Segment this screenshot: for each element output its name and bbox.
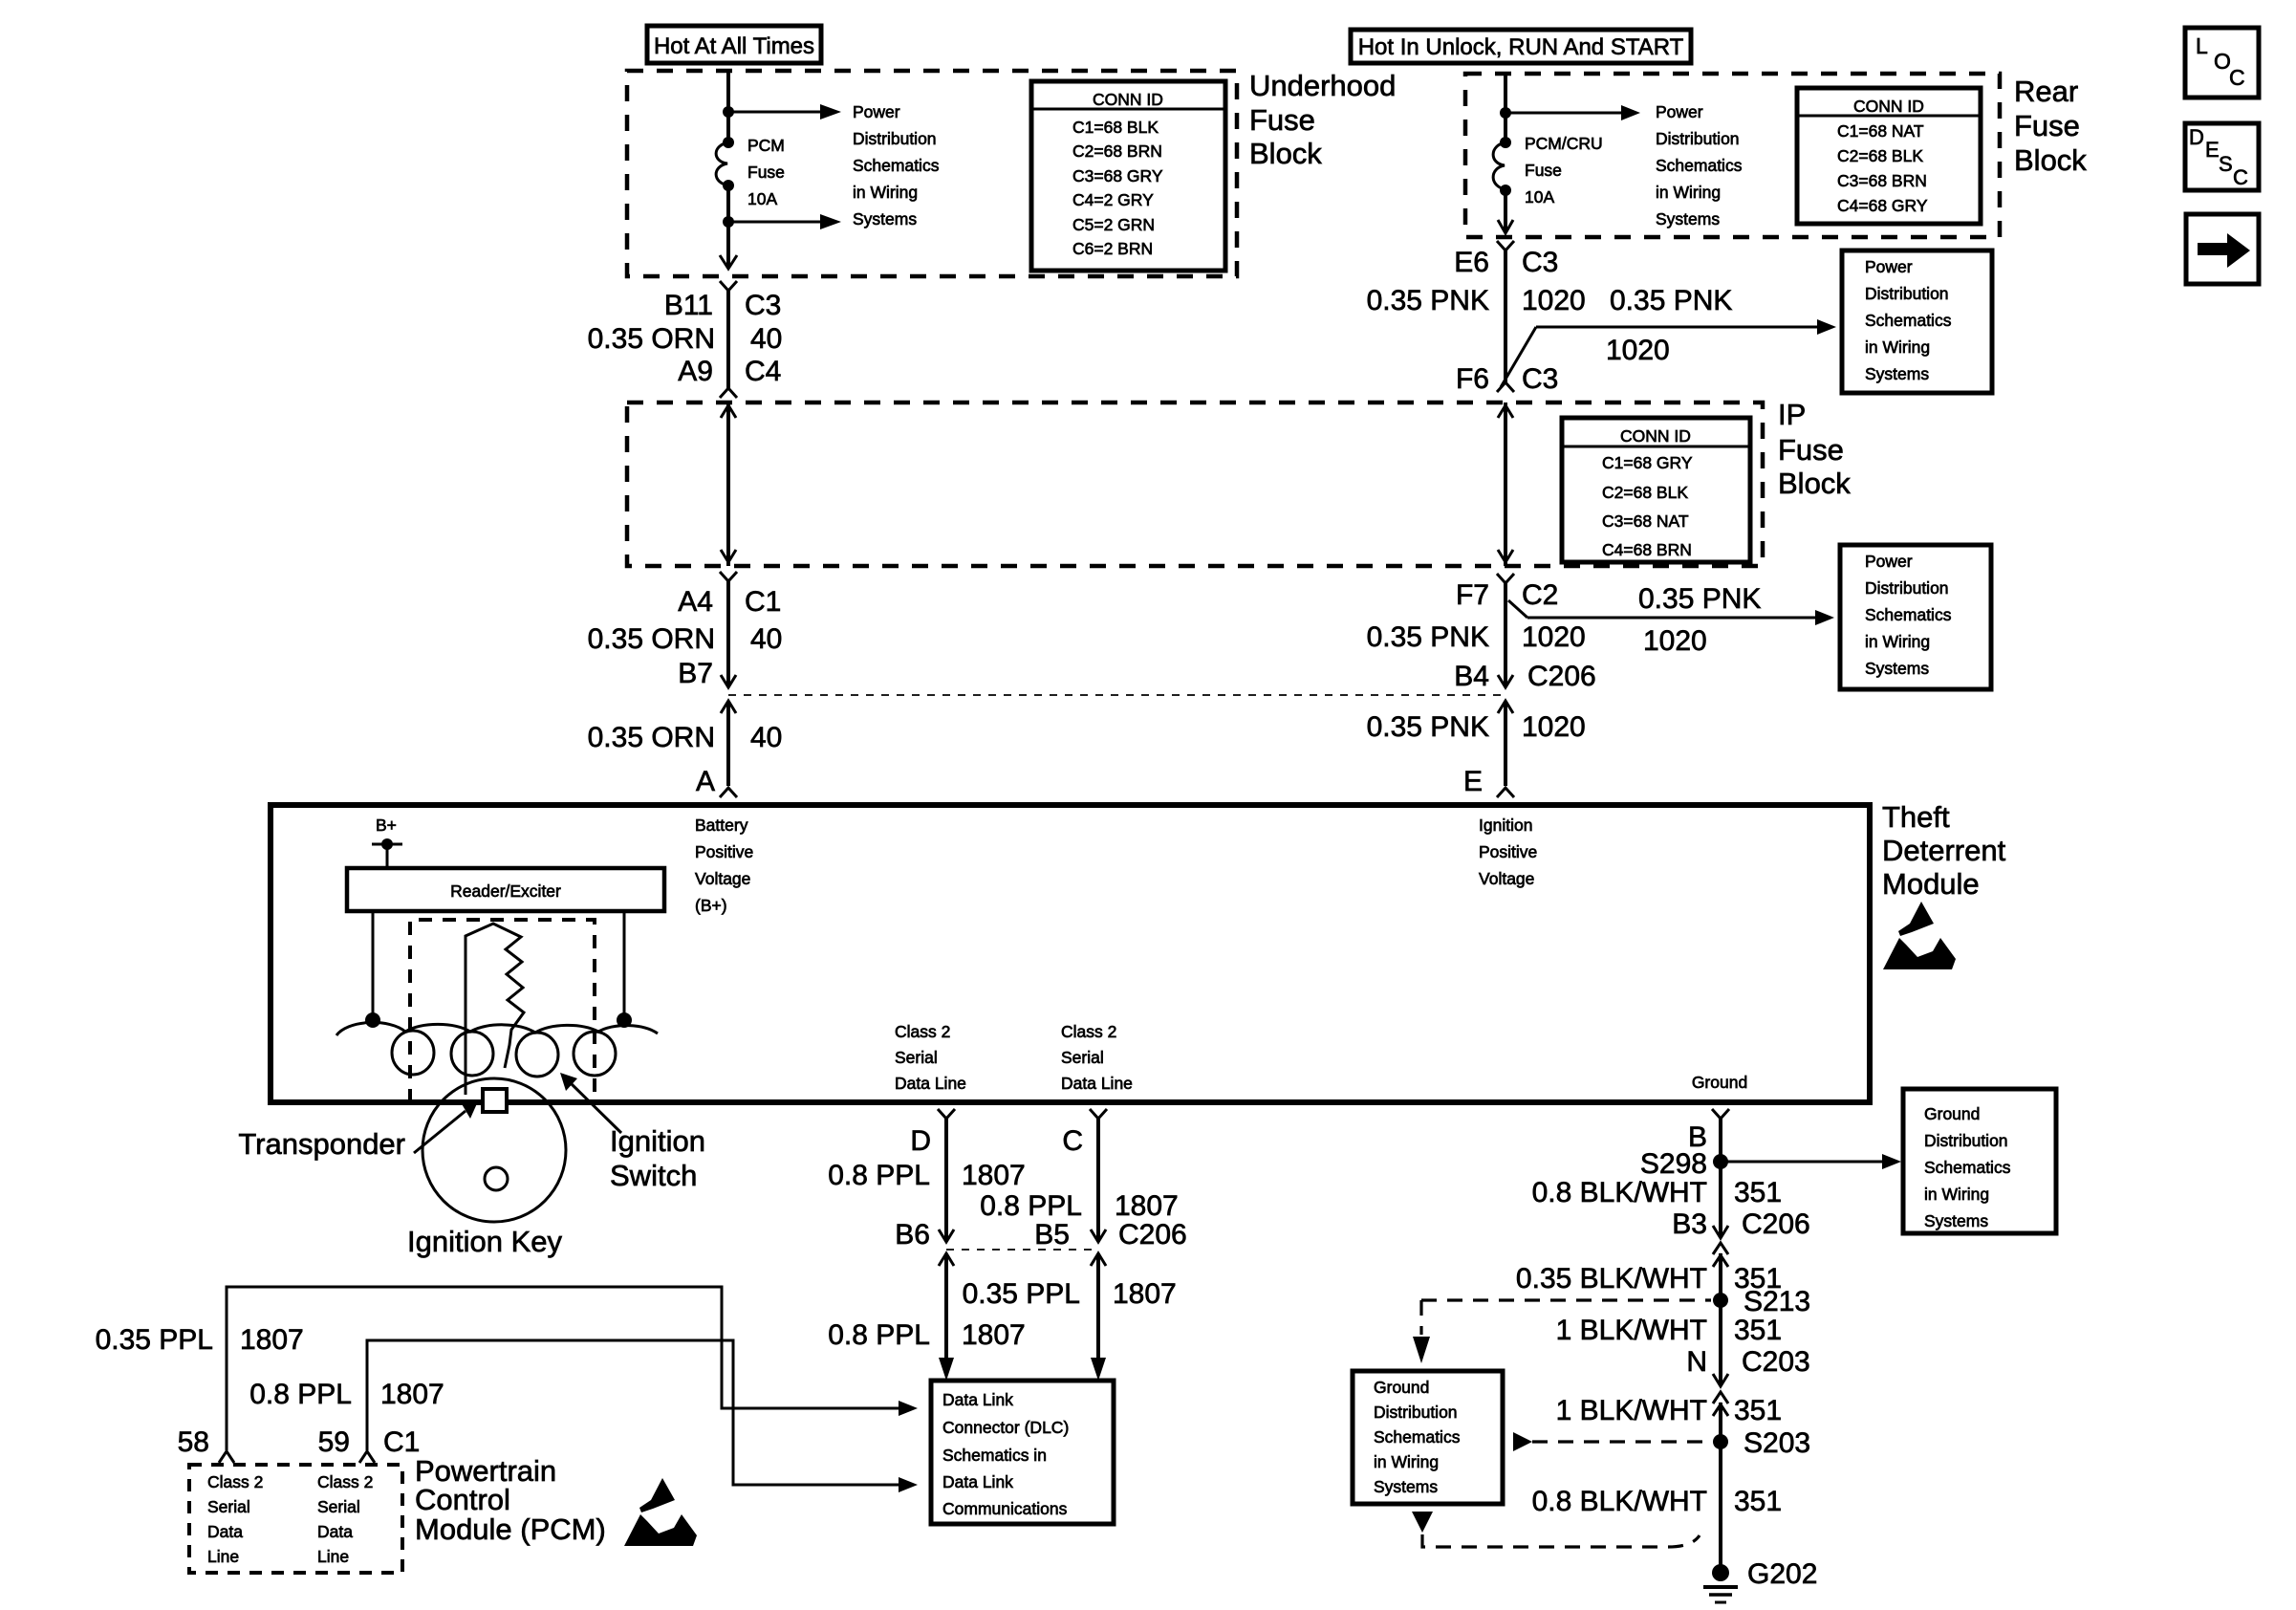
svg-text:C1: C1 (745, 586, 781, 618)
wire: 0.35 PNK 1020 (rear to IP) (1504, 249, 1507, 382)
svg-text:Reader/Exciter: Reader/Exciter (450, 881, 561, 901)
svg-text:CONN ID: CONN ID (1620, 426, 1691, 446)
svg-text:C3: C3 (1522, 363, 1558, 395)
svg-text:Distribution: Distribution (853, 129, 937, 148)
connector E6/C3: top fork (1497, 241, 1514, 250)
svg-text:C2=68 BRN: C2=68 BRN (1072, 141, 1162, 161)
svg-text:0.35 PPL: 0.35 PPL (96, 1324, 213, 1356)
wire: 0.35 PPL 1807 (C206 to DLC, left) (939, 1253, 954, 1266)
svg-text:S213: S213 (1744, 1286, 1810, 1317)
svg-text:0.8 BLK/WHT: 0.8 BLK/WHT (1532, 1177, 1707, 1208)
svg-text:C5=2 GRN: C5=2 GRN (1072, 215, 1155, 234)
wire: PCM pin 58 serial data to DLC (227, 1287, 900, 1450)
svg-text:Data: Data (207, 1522, 243, 1541)
svg-text:Schematics: Schematics (1374, 1427, 1461, 1447)
wire: reader/exciter left lead (372, 911, 375, 1015)
wire: ignition feed into rear block (1504, 74, 1507, 142)
svg-text:in Wiring: in Wiring (1924, 1185, 1989, 1204)
svg-text:C1=68 GRY: C1=68 GRY (1602, 453, 1693, 472)
wire: reader/exciter right lead (623, 911, 626, 1015)
connector fork at PCM pin 59 (359, 1451, 375, 1463)
svg-text:10A: 10A (1525, 187, 1554, 207)
svg-text:Class 2: Class 2 (895, 1022, 950, 1041)
svg-text:Distribution: Distribution (1374, 1403, 1458, 1422)
splice S203 (1713, 1434, 1728, 1449)
label: Theft Deterrent Module title (1882, 800, 2006, 901)
wire: branch from F7 to power distribution (lower) (1508, 600, 1527, 618)
svg-text:Block: Block (2014, 143, 2087, 177)
legend box: arrow (2186, 214, 2259, 284)
svg-text:C203: C203 (1742, 1346, 1810, 1378)
svg-text:C206: C206 (1118, 1219, 1187, 1251)
svg-text:N: N (1686, 1346, 1707, 1378)
svg-text:Serial: Serial (207, 1497, 250, 1516)
svg-text:Control: Control (415, 1483, 510, 1516)
ignition key head (422, 1078, 566, 1222)
reference box: Power Distribution Schematics (upper right) (1842, 250, 1992, 393)
svg-text:Block: Block (1249, 137, 1322, 170)
reference box: Power Distribution Schematics (lower right) (1840, 545, 1991, 689)
legend box: DESC (2185, 123, 2259, 190)
connector table: CONN ID IP (1562, 418, 1750, 562)
wire: 0.35 BLK/WHT 351 (C206 to S213) (1719, 1253, 1722, 1300)
svg-text:Voltage: Voltage (695, 869, 750, 888)
svg-text:A4: A4 (678, 586, 713, 618)
svg-text:0.35 PNK: 0.35 PNK (1367, 285, 1489, 316)
svg-text:Data Link: Data Link (942, 1472, 1013, 1491)
svg-text:Distribution: Distribution (1924, 1131, 2008, 1150)
IP Fuse Block dashed box (627, 402, 1763, 566)
reference box: Ground Distribution Schematics (left) (1353, 1371, 1503, 1504)
svg-text:0.8 PPL: 0.8 PPL (828, 1160, 930, 1191)
connector table: CONN ID rear (1797, 88, 1981, 224)
node: junction to power distribution arrow (1500, 107, 1511, 119)
wire: 0.8 BLK/WHT 351 (S203 to G202) (1719, 1442, 1722, 1568)
svg-text:0.8 PPL: 0.8 PPL (249, 1379, 352, 1410)
svg-text:CONN ID: CONN ID (1853, 97, 1924, 116)
svg-text:C3=68 GRY: C3=68 GRY (1072, 166, 1163, 185)
splice S213 (1713, 1293, 1728, 1308)
svg-text:351: 351 (1734, 1486, 1782, 1517)
wire: dashed branch below left box to G202 (1412, 1512, 1433, 1533)
connector F6/C3: bottom fork (1497, 382, 1514, 392)
connector D: fork below module (938, 1109, 955, 1119)
svg-text:0.35 BLK/WHT: 0.35 BLK/WHT (1516, 1263, 1707, 1295)
svg-text:0.8 PPL: 0.8 PPL (828, 1319, 930, 1351)
svg-text:Positive: Positive (695, 842, 753, 861)
svg-text:40: 40 (750, 623, 782, 655)
wire: arrow to Power Distribution Schematics (rear) (1505, 112, 1623, 115)
antenna scalloped winding line (336, 1022, 658, 1035)
svg-text:351: 351 (1734, 1315, 1782, 1346)
label: Ignition Switch with arrow (560, 1073, 705, 1192)
svg-text:40: 40 (750, 722, 782, 753)
svg-text:PCM/CRU: PCM/CRU (1525, 134, 1603, 153)
svg-text:1 BLK/WHT: 1 BLK/WHT (1556, 1315, 1707, 1346)
svg-text:B3: B3 (1672, 1208, 1707, 1240)
wire: pass-through inside IP fuse block (right) (1504, 402, 1507, 566)
ignition switch dashed outline (410, 920, 595, 1102)
label: Rear Fuse Block title (2014, 75, 2087, 177)
svg-text:Line: Line (317, 1547, 349, 1566)
svg-text:C2=68 BLK: C2=68 BLK (1602, 483, 1688, 502)
svg-text:E6: E6 (1454, 247, 1489, 278)
connector A4/C1: top fork (720, 572, 737, 581)
wire: 0.8 BLK/WHT 351 (module B to C206) (1719, 1117, 1722, 1238)
Underhood Fuse Block dashed box (627, 71, 1237, 276)
label: Class 2 Serial Data Line (PCM left) (207, 1472, 263, 1566)
svg-text:Data Link: Data Link (942, 1390, 1013, 1409)
svg-text:G202: G202 (1747, 1558, 1817, 1590)
wire: arrow from S298 to ground distribution (1721, 1161, 1884, 1164)
wire: dashed branch from S213 to ground distribution (left) (1421, 1298, 1711, 1301)
svg-text:Power: Power (853, 102, 900, 121)
svg-text:Underhood: Underhood (1249, 69, 1396, 102)
svg-text:in Wiring: in Wiring (1865, 337, 1930, 357)
node: junction to power distribution arrow (723, 106, 734, 118)
svg-text:E: E (1463, 766, 1483, 797)
svg-text:0.35 ORN: 0.35 ORN (588, 722, 715, 753)
Rear Fuse Block dashed box (1465, 74, 2000, 237)
wire: battery feed B+ into underhood block (726, 71, 730, 142)
svg-text:S203: S203 (1744, 1427, 1810, 1459)
svg-text:Schematics: Schematics (853, 156, 940, 175)
svg-text:Systems: Systems (853, 209, 917, 228)
svg-text:B6: B6 (895, 1219, 930, 1251)
svg-text:0.35 PPL: 0.35 PPL (963, 1278, 1080, 1310)
wire: fuse output to block exit (726, 185, 730, 268)
svg-text:E: E (2205, 138, 2220, 162)
svg-text:Schematics: Schematics (1865, 605, 1952, 624)
svg-text:Serial: Serial (895, 1048, 938, 1067)
connector C206 in-line dashed link (728, 694, 1505, 696)
svg-text:B7: B7 (678, 658, 713, 689)
svg-text:B4: B4 (1454, 661, 1489, 692)
svg-text:58: 58 (178, 1426, 209, 1458)
ESD sensitivity symbol (PCM) (624, 1478, 697, 1546)
transponder chip square (483, 1089, 507, 1112)
svg-text:Fuse: Fuse (1525, 161, 1562, 180)
svg-text:S: S (2219, 152, 2233, 176)
svg-text:1020: 1020 (1606, 335, 1670, 366)
svg-text:0.35 PNK: 0.35 PNK (1610, 285, 1732, 316)
svg-text:Data: Data (317, 1522, 353, 1541)
svg-text:0.8 PPL: 0.8 PPL (980, 1190, 1082, 1222)
svg-text:Serial: Serial (317, 1497, 360, 1516)
svg-text:0.35 ORN: 0.35 ORN (588, 323, 715, 355)
svg-text:C2=68 BLK: C2=68 BLK (1837, 146, 1923, 165)
svg-text:1020: 1020 (1643, 625, 1707, 657)
svg-text:Class 2: Class 2 (1061, 1022, 1116, 1041)
antenna coil loops (392, 1031, 616, 1077)
svg-text:1020: 1020 (1522, 621, 1586, 653)
svg-text:Line: Line (207, 1547, 239, 1566)
header box: Hot In Unlock, RUN And START (1351, 30, 1691, 63)
svg-text:1020: 1020 (1522, 711, 1586, 743)
svg-text:C1=68 BLK: C1=68 BLK (1072, 118, 1159, 137)
svg-text:Fuse: Fuse (2014, 109, 2080, 142)
svg-text:1 BLK/WHT: 1 BLK/WHT (1556, 1395, 1707, 1426)
svg-text:F7: F7 (1456, 579, 1489, 611)
svg-text:Schematics: Schematics (1924, 1158, 2011, 1177)
connector table: CONN ID underhood (1031, 81, 1225, 271)
label: Class 2 Serial Data Line (PCM right) (317, 1472, 373, 1566)
connector fork at PCM pin 58 (219, 1451, 234, 1463)
svg-text:40: 40 (750, 323, 782, 355)
node: left antenna tap (365, 1012, 380, 1028)
fuse: PCM Fuse 10A (716, 136, 785, 208)
svg-text:(B+): (B+) (695, 896, 727, 915)
label: IP Fuse Block title (1778, 398, 1851, 500)
svg-text:1807: 1807 (1113, 1278, 1177, 1310)
svg-text:C3: C3 (1522, 247, 1558, 278)
wire: arrow to Power Distribution Schematics (lower) (728, 221, 822, 224)
Reader/Exciter box (347, 868, 664, 911)
node: junction to power distribution arrow (lower) (723, 216, 734, 228)
label: Class 2 Serial Data Line (right) (1061, 1022, 1133, 1093)
reference box: Data Link Connector (DLC) (931, 1381, 1114, 1524)
wire: 0.35 PNK 1020 (C206 to module pin E) (1498, 701, 1513, 713)
svg-text:C4=68 GRY: C4=68 GRY (1837, 196, 1928, 215)
svg-text:C: C (1062, 1125, 1083, 1157)
legend box: LOC (2185, 28, 2259, 98)
svg-text:A9: A9 (678, 356, 713, 387)
reference box: Ground Distribution Schematics (right) (1903, 1089, 2056, 1233)
wire: 0.35 PNK 1020 (IP to C206) (1504, 581, 1507, 687)
svg-text:in Wiring: in Wiring (1865, 632, 1930, 651)
svg-text:PCM: PCM (747, 136, 785, 155)
svg-text:Serial: Serial (1061, 1048, 1104, 1067)
B+ terminal (372, 816, 402, 870)
svg-text:Distribution: Distribution (1656, 129, 1740, 148)
svg-text:Schematics: Schematics (1865, 311, 1952, 330)
svg-text:Systems: Systems (1865, 364, 1929, 383)
connector C203 chevrons (1713, 1392, 1728, 1416)
label: Ignition Positive Voltage (1479, 816, 1537, 888)
label: Power Distribution Schematics in Wiring Systems (853, 102, 940, 228)
svg-text:in Wiring: in Wiring (1656, 183, 1721, 202)
svg-text:Battery: Battery (695, 816, 748, 835)
svg-text:Switch: Switch (610, 1159, 697, 1192)
svg-text:C3: C3 (745, 290, 781, 321)
svg-text:Transponder: Transponder (238, 1127, 405, 1161)
svg-text:0.35 PNK: 0.35 PNK (1638, 583, 1761, 615)
svg-text:S298: S298 (1640, 1148, 1707, 1180)
label: Battery Positive Voltage (B+) (695, 816, 753, 915)
ignition key blade with resistor pellet zigzag (466, 924, 524, 1095)
svg-text:Power: Power (1656, 102, 1703, 121)
svg-text:IP: IP (1778, 398, 1806, 431)
label: Power Distribution Schematics in Wiring Systems (1656, 102, 1743, 228)
header box: Hot At All Times (647, 26, 821, 63)
svg-text:Data Line: Data Line (895, 1074, 966, 1093)
svg-text:C4=2 GRY: C4=2 GRY (1072, 190, 1154, 209)
svg-text:F6: F6 (1456, 363, 1489, 395)
svg-text:Power: Power (1865, 552, 1913, 571)
svg-text:Ignition Key: Ignition Key (407, 1225, 562, 1258)
connector C206 chevrons (1713, 1243, 1728, 1267)
svg-text:351: 351 (1734, 1395, 1782, 1426)
svg-text:Theft: Theft (1882, 800, 1950, 834)
svg-text:Ignition: Ignition (1479, 816, 1532, 835)
wire: 0.35 ORN 40 (underhood to IP) (726, 290, 730, 389)
connector A9/C4: bottom fork (720, 388, 737, 398)
svg-text:Schematics: Schematics (1656, 156, 1743, 175)
label: Underhood Fuse Block title (1249, 69, 1396, 170)
svg-text:Rear: Rear (2014, 75, 2078, 108)
svg-text:Schematics in: Schematics in (942, 1446, 1047, 1465)
svg-text:Systems: Systems (1374, 1477, 1438, 1496)
label: Powertrain Control Module (PCM) title (415, 1454, 606, 1546)
svg-text:0.35 PNK: 0.35 PNK (1367, 711, 1489, 743)
svg-text:A: A (696, 766, 715, 797)
svg-text:1807: 1807 (1115, 1190, 1179, 1222)
svg-text:Voltage: Voltage (1479, 869, 1534, 888)
wire: 0.8 PPL 1807 (module D to C206) (944, 1117, 948, 1242)
svg-text:Module: Module (1882, 867, 1980, 901)
wire: arrow to Power Distribution Schematics (upper) (728, 111, 822, 114)
PCM dashed box (189, 1465, 402, 1573)
svg-text:Distribution: Distribution (1865, 578, 1949, 598)
node: right antenna tap (617, 1012, 632, 1028)
svg-text:C3=68 BRN: C3=68 BRN (1837, 171, 1927, 190)
svg-text:Ground: Ground (1374, 1378, 1429, 1397)
label: Transponder with arrow (238, 1101, 478, 1161)
svg-text:Deterrent: Deterrent (1882, 834, 2006, 867)
svg-text:Module (PCM): Module (PCM) (415, 1512, 606, 1546)
wire: 1 BLK/WHT 351 (C203 to S203) (1719, 1403, 1722, 1442)
svg-text:L: L (2196, 33, 2208, 58)
svg-text:Class 2: Class 2 (207, 1472, 263, 1491)
svg-text:Systems: Systems (1924, 1211, 1988, 1230)
wire: 1 BLK/WHT 351 (S213 to C203) (1719, 1300, 1722, 1386)
svg-text:Class 2: Class 2 (317, 1472, 373, 1491)
svg-text:Fuse: Fuse (1778, 433, 1844, 467)
ignition key hole (485, 1167, 508, 1190)
svg-text:0.8 BLK/WHT: 0.8 BLK/WHT (1532, 1486, 1707, 1517)
wire: 1807 (C206 to DLC, right) (1091, 1253, 1106, 1266)
svg-text:C1=68 NAT: C1=68 NAT (1837, 121, 1924, 141)
svg-text:351: 351 (1734, 1177, 1782, 1208)
arrowhead: open V at underhood block exit (720, 255, 737, 269)
wire: branch from F6 to power distribution (1501, 327, 1536, 387)
splice S298 (1713, 1154, 1728, 1169)
svg-text:B5: B5 (1034, 1219, 1070, 1251)
connector C: fork below module (1090, 1109, 1107, 1119)
svg-text:Ground: Ground (1924, 1104, 1980, 1123)
wire: fuse output to rear block exit (1504, 190, 1507, 232)
wire: dashed branch from S203 to ground distribution (left) (1513, 1432, 1532, 1451)
svg-text:C6=2 BRN: C6=2 BRN (1072, 239, 1153, 258)
svg-text:C2: C2 (1522, 579, 1558, 611)
wire: 0.35 ORN 40 (IP to C206) (726, 579, 730, 687)
Theft Deterrent Module box (271, 805, 1870, 1102)
ESD sensitivity symbol (module) (1883, 902, 1956, 969)
svg-text:CONN ID: CONN ID (1093, 90, 1163, 109)
svg-text:C206: C206 (1742, 1208, 1810, 1240)
svg-text:Fuse: Fuse (747, 163, 785, 182)
svg-text:Ground: Ground (1692, 1073, 1747, 1092)
svg-text:B11: B11 (664, 290, 713, 321)
svg-text:59: 59 (318, 1426, 350, 1458)
label: Class 2 Serial Data Line (left) (895, 1022, 966, 1093)
svg-text:Power: Power (1865, 257, 1913, 276)
svg-text:Hot At All Times: Hot At All Times (654, 33, 814, 59)
connector B11/C3: top fork (720, 281, 737, 291)
svg-text:in Wiring: in Wiring (853, 183, 918, 202)
svg-text:1807: 1807 (962, 1319, 1026, 1351)
svg-text:1807: 1807 (962, 1160, 1026, 1191)
svg-text:Positive: Positive (1479, 842, 1537, 861)
svg-text:C206: C206 (1527, 661, 1596, 692)
fuse: PCM/CRU Fuse 10A (1493, 134, 1603, 207)
svg-text:C4=68 BRN: C4=68 BRN (1602, 540, 1692, 559)
wire: 0.35 ORN 40 (C206 to module pin A) (721, 701, 736, 713)
svg-text:1807: 1807 (240, 1324, 304, 1356)
connector C206 in-line dashed link (data lines) (946, 1249, 1098, 1251)
wire: PCM pin 59 serial data to DLC (367, 1340, 900, 1485)
svg-text:D: D (2189, 125, 2204, 149)
svg-text:Data Line: Data Line (1061, 1074, 1133, 1093)
svg-text:Connector (DLC): Connector (DLC) (942, 1418, 1069, 1437)
ground G202 (1703, 1564, 1738, 1602)
svg-text:1807: 1807 (380, 1379, 444, 1410)
svg-text:Ignition: Ignition (610, 1124, 705, 1158)
svg-text:C4: C4 (745, 356, 781, 387)
svg-text:in Wiring: in Wiring (1374, 1452, 1439, 1471)
svg-text:10A: 10A (747, 189, 777, 208)
svg-text:Systems: Systems (1656, 209, 1720, 228)
wire: pass-through inside IP fuse block (left) (726, 402, 730, 566)
svg-text:Hot In Unlock, RUN And START: Hot In Unlock, RUN And START (1358, 34, 1684, 60)
svg-text:1020: 1020 (1522, 285, 1586, 316)
svg-text:0.35 PNK: 0.35 PNK (1367, 621, 1489, 653)
wire: 0.8 PPL 1807 (module C to C206) (1096, 1117, 1100, 1242)
svg-text:C3=68 NAT: C3=68 NAT (1602, 511, 1689, 531)
svg-text:D: D (910, 1125, 931, 1157)
connector F7/C2: top fork (1497, 574, 1514, 583)
svg-text:Block: Block (1778, 467, 1851, 500)
svg-text:Fuse: Fuse (1249, 103, 1315, 137)
svg-text:0.35 ORN: 0.35 ORN (588, 623, 715, 655)
svg-text:C: C (2229, 65, 2245, 90)
svg-text:Communications: Communications (942, 1499, 1068, 1518)
svg-text:C: C (2233, 165, 2248, 189)
svg-text:Distribution: Distribution (1865, 284, 1949, 303)
svg-text:Systems: Systems (1865, 659, 1929, 678)
connector B: fork below module (ground) (1712, 1109, 1729, 1119)
svg-text:B+: B+ (376, 816, 397, 835)
